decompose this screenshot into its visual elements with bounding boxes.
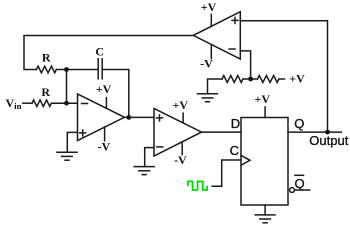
- svg-text:D: D: [231, 116, 240, 131]
- resistor R2 input: [32, 100, 51, 107]
- svg-text:-V: -V: [98, 139, 111, 153]
- node divider junction dot: [248, 77, 253, 82]
- capacitor C1: [98, 59, 102, 79]
- wire R3 to divider node to R4: [243, 78, 258, 80]
- op-amp U2 -V supply tick: [181, 142, 183, 155]
- flip-flop +V supply tick: [264, 107, 266, 118]
- svg-text:C: C: [95, 45, 104, 59]
- op-amp U3 -V supply tick: [210, 45, 212, 58]
- svg-text:+V: +V: [96, 82, 112, 96]
- resistor R1 feedback: [36, 66, 56, 73]
- op-amp U3 +V supply tick: [210, 14, 212, 26]
- wire Qbar output: [294, 189, 309, 191]
- wire U1 output to op-amp U2: [125, 116, 155, 118]
- wire U3 inverting input down to divider node: [240, 51, 250, 79]
- svg-text:Vin: Vin: [6, 96, 22, 111]
- wire U2 output to flip-flop D input: [202, 131, 242, 133]
- ground G1 under U1: [57, 152, 77, 160]
- flip-flop Qbar bubble: [290, 188, 295, 193]
- svg-text:C: C: [230, 143, 239, 158]
- op-amp U1 +V supply tick: [105, 98, 107, 109]
- flip-flop clock edge triangle: [241, 155, 250, 165]
- svg-text:-V: -V: [200, 57, 213, 71]
- svg-text:Output: Output: [309, 133, 348, 148]
- op-amp U1 integrator triangle: [78, 94, 125, 141]
- svg-text:R: R: [42, 51, 51, 65]
- node output junction dot: [325, 130, 330, 135]
- ground G2 under U2: [134, 167, 154, 175]
- svg-text:Q: Q: [294, 176, 304, 191]
- wire clock input: [212, 160, 241, 186]
- op-amp U3 minus marker: [229, 48, 235, 50]
- wire U1 noninverting input to ground: [67, 132, 77, 152]
- clock source waveform green: [188, 181, 207, 190]
- wire R1 to node A and capacitor: [56, 69, 98, 71]
- svg-text:R: R: [41, 85, 50, 99]
- op-amp U3 plus marker: [232, 17, 238, 23]
- node B junction dot: [64, 101, 69, 106]
- flip-flop U4 box: [241, 118, 288, 206]
- wire R2 to op-amp U1 inverting input: [51, 102, 77, 104]
- resistor R4: [258, 76, 280, 83]
- op-amp U2 +V supply tick: [182, 113, 184, 123]
- op-amp U1 plus marker: [80, 130, 86, 136]
- wire flip-flop Q output to output node: [288, 131, 341, 133]
- svg-text:+V: +V: [201, 0, 217, 14]
- wire R4 to +V: [279, 78, 285, 80]
- wire feedback top from comparator U3 output to left: [24, 36, 193, 70]
- op-amp U2 minus marker: [157, 146, 163, 148]
- node A junction dot: [64, 67, 69, 72]
- wire capacitor C1 to feedback corner: [102, 70, 129, 118]
- op-amp U2 plus marker: [157, 115, 163, 121]
- wire ground to resistor R3: [208, 79, 223, 94]
- ground G4 under flip-flop: [255, 205, 275, 223]
- op-amp U1 -V supply tick: [104, 127, 106, 141]
- op-amp U2 buffer triangle: [154, 108, 202, 156]
- wire U3 noninverting input to right corner down to output node: [240, 21, 327, 132]
- node U1 output junction dot: [126, 115, 131, 120]
- op-amp U1 minus marker: [82, 103, 88, 105]
- op-amp U3 comparator triangle pointing left: [193, 12, 240, 59]
- wire Vin to resistor R2: [23, 102, 32, 104]
- svg-text:-V: -V: [174, 153, 187, 167]
- svg-text:+V: +V: [255, 92, 271, 106]
- svg-text:Q: Q: [294, 116, 304, 131]
- Qbar overbar: [295, 174, 304, 176]
- resistor R3: [222, 76, 243, 83]
- ground G3 divider: [198, 94, 218, 102]
- wire node A to node B vertical: [66, 70, 68, 104]
- svg-text:+V: +V: [173, 98, 189, 112]
- svg-text:+V: +V: [289, 71, 305, 85]
- wire U2 inverting input to ground: [145, 148, 154, 167]
